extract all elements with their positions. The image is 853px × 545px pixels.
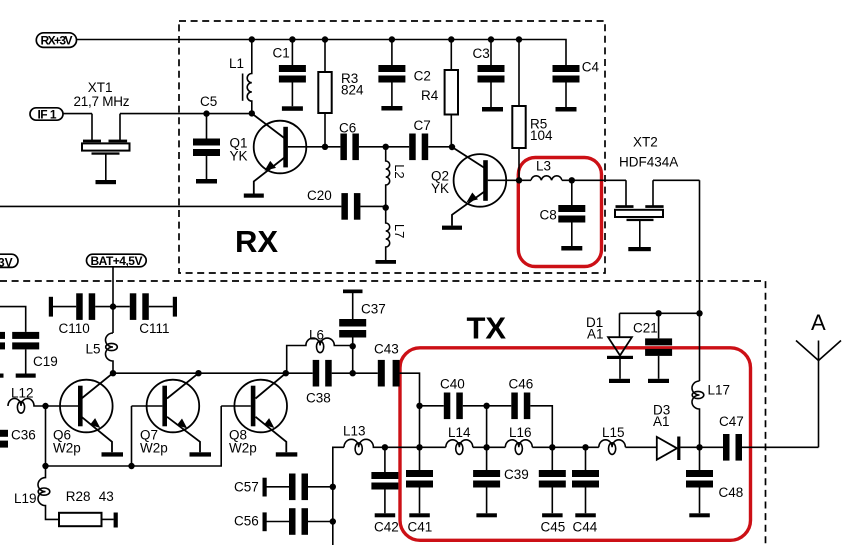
transistor Q8 circle <box>234 380 287 433</box>
wire D1/C21 top <box>620 312 700 314</box>
inductor L13 <box>344 439 385 447</box>
inductor L1 <box>247 40 252 114</box>
svg-text:W2p: W2p <box>229 441 257 456</box>
ground C3 <box>482 107 503 112</box>
capacitor C6 <box>340 134 347 161</box>
svg-text:C37: C37 <box>361 302 386 317</box>
svg-text:L2: L2 <box>392 164 407 178</box>
svg-text:YK: YK <box>230 149 248 164</box>
transistor Q8 emitter <box>256 417 287 453</box>
inductor L17 loop <box>692 391 704 398</box>
ground Q8 <box>276 452 298 456</box>
svg-text:L19: L19 <box>14 491 37 506</box>
svg-text:A1: A1 <box>653 414 670 429</box>
svg-text:RX+3V: RX+3V <box>41 34 73 48</box>
capacitor C5 leads <box>206 114 208 179</box>
diode D1 body <box>608 337 632 355</box>
capacitor C2 <box>378 65 405 72</box>
inductor L2 <box>386 147 390 208</box>
wire Q7 base column <box>131 406 133 466</box>
transistor Q6 emitter <box>82 417 113 453</box>
svg-text:L6: L6 <box>309 328 324 343</box>
wire C37 to C38 node <box>352 338 354 374</box>
svg-text:104: 104 <box>530 128 553 143</box>
inductor L14 loop <box>456 443 463 455</box>
resistor R28 body <box>59 513 102 526</box>
ground XT2 <box>628 247 651 251</box>
capacitor C41 bottom lead <box>419 488 421 514</box>
wire L14 to L16 <box>473 446 506 448</box>
capacitor C110 <box>76 293 83 320</box>
capacitor C3 <box>478 65 505 72</box>
capacitor C44 <box>572 470 599 477</box>
junction dots TX filter <box>350 343 356 349</box>
net label BAT+4,5V <box>87 254 147 267</box>
ground C4 <box>556 107 577 112</box>
ground C48 <box>689 513 710 517</box>
capacitor C19 <box>12 332 39 339</box>
wire Q7 base <box>132 405 163 407</box>
svg-text:L13: L13 <box>343 424 366 439</box>
svg-text:C36: C36 <box>11 428 36 443</box>
wire collector rail Q6-Q8 <box>113 372 313 374</box>
inductor L7 <box>386 208 390 260</box>
inductor L19 loop <box>38 488 50 495</box>
ground C21 <box>648 379 669 383</box>
capacitor C21 leads <box>658 313 660 379</box>
wire C46 right drop <box>530 406 552 448</box>
svg-text:C44: C44 <box>573 520 598 535</box>
wire C6 to C7 <box>359 146 409 148</box>
wire C40 to C46 <box>463 405 512 407</box>
resistor R3 leads <box>324 40 326 147</box>
svg-text:A: A <box>811 310 826 335</box>
wire TX column upper <box>699 180 701 381</box>
svg-text:C41: C41 <box>408 520 433 535</box>
svg-text:C21: C21 <box>633 321 658 336</box>
diode D3 cathode bar <box>677 437 680 461</box>
capacitor C3 leads <box>490 40 492 108</box>
svg-text:C3: C3 <box>473 46 490 61</box>
antenna A mast <box>818 361 820 448</box>
capacitor C8 <box>558 205 585 212</box>
svg-text:824: 824 <box>341 83 364 98</box>
svg-text:C2: C2 <box>414 69 431 84</box>
svg-text:C47: C47 <box>719 414 744 429</box>
inductor L14 <box>446 440 473 447</box>
transistor Q6 base bar <box>78 386 83 427</box>
svg-text:C111: C111 <box>139 321 169 336</box>
capacitor C37 <box>339 319 366 327</box>
ground Q2 <box>442 226 462 230</box>
svg-text:C40: C40 <box>440 377 465 392</box>
capacitor C111 <box>130 293 137 320</box>
transistor Q1 emitter <box>254 158 285 194</box>
capacitor C36 (clipped) <box>0 430 8 437</box>
inductor L15 loop <box>609 443 616 455</box>
crystal XT2 leads <box>626 180 653 205</box>
svg-text:C110: C110 <box>59 321 90 336</box>
RX block dashed border <box>179 21 605 273</box>
capacitor C4 leads <box>565 83 567 108</box>
terminal bar C56 left <box>263 512 267 531</box>
transistor Q1 base bar <box>283 127 288 168</box>
svg-text:L16: L16 <box>509 425 532 440</box>
ground C1 <box>282 106 303 111</box>
transistor Q2 emitter arrow <box>467 193 479 203</box>
capacitor C20 <box>341 193 348 220</box>
wire C40 row left <box>420 405 444 407</box>
svg-text:C57: C57 <box>234 480 259 495</box>
wire L13 to L14 <box>385 446 446 448</box>
svg-text:IF 1: IF 1 <box>38 107 57 121</box>
wire IF2 feed to C20 <box>0 205 341 207</box>
svg-text:C20: C20 <box>307 188 332 203</box>
resistor R4 leads <box>450 40 452 148</box>
crystal XT2 stem <box>639 221 641 248</box>
ground C41 <box>409 513 430 517</box>
ground C42 <box>375 513 396 517</box>
transistor Q7 collector <box>167 373 199 398</box>
capacitor C37 stem <box>352 293 354 319</box>
capacitor C56 <box>289 508 296 535</box>
wire C38 to C43 <box>332 372 378 374</box>
resistor R5 body <box>512 106 525 148</box>
capacitor C8 leads <box>571 180 573 246</box>
transistor Q7 circle <box>147 380 200 433</box>
wire C110 left <box>53 306 76 308</box>
wire filter column C39 <box>486 406 488 470</box>
svg-text:C43: C43 <box>374 342 399 357</box>
svg-text:C1: C1 <box>273 46 290 61</box>
capacitor C45 <box>539 470 566 477</box>
svg-text:L5: L5 <box>86 342 101 357</box>
inductor L16 loop <box>515 443 522 455</box>
diode D1 anode lead <box>619 313 621 337</box>
ground Q7 <box>190 452 212 456</box>
terminal bar C111 right <box>173 297 177 317</box>
svg-text:C5: C5 <box>200 94 217 109</box>
wire C43 to filter input <box>400 373 420 406</box>
crystal XT1 lower electrode <box>92 152 120 154</box>
resistor R4 body <box>445 70 458 115</box>
svg-text:43: 43 <box>99 489 114 504</box>
crystal XT2 body <box>615 210 663 217</box>
capacitor C42 bottom lead <box>384 490 386 514</box>
svg-text:A1: A1 <box>587 327 604 342</box>
wire Q8 base <box>221 405 251 407</box>
junction dots right <box>655 310 661 316</box>
diode D1 cathode lead <box>619 359 621 379</box>
net label IF1 <box>30 108 63 120</box>
crystal XT1 leads <box>92 114 120 140</box>
svg-text:XT1: XT1 <box>88 80 113 95</box>
svg-text:C46: C46 <box>509 377 534 392</box>
svg-text:C38: C38 <box>306 391 331 406</box>
ground C19 <box>16 374 36 378</box>
transistor Q7 emitter <box>167 417 200 453</box>
net label TX+3V (clipped) <box>0 254 18 267</box>
wire node to C111 <box>113 306 130 308</box>
svg-text:C45: C45 <box>541 520 566 535</box>
inductor L3 <box>531 176 562 180</box>
transistor Q8 emitter arrow <box>264 418 274 428</box>
svg-text:C56: C56 <box>234 514 259 529</box>
ground C8 <box>561 246 582 251</box>
svg-text:TX: TX <box>467 311 507 346</box>
svg-text:L15: L15 <box>602 425 625 440</box>
wire emitter bus <box>46 406 222 466</box>
TX block dashed border <box>0 281 766 545</box>
svg-text:C48: C48 <box>719 485 744 500</box>
inductor L6 loop <box>317 341 324 353</box>
wire C47 to antenna <box>742 446 819 448</box>
inductor L15 <box>599 440 626 448</box>
svg-text:+3V: +3V <box>0 255 13 269</box>
wire Q2 base to L3 <box>488 179 531 181</box>
wire C19 top <box>0 307 26 332</box>
diode D1 cathode bar <box>607 356 633 359</box>
wire XT1 to C5 to L1 node <box>120 113 252 115</box>
terminal bar C37 top <box>343 290 363 294</box>
svg-text:C4: C4 <box>582 60 600 75</box>
wire C57 left <box>267 486 290 488</box>
capacitor C44 leads <box>585 447 587 513</box>
capacitor C39 <box>473 470 500 477</box>
net label RX+3V <box>36 33 76 48</box>
transistor Q6 collector <box>82 373 113 398</box>
wire C57 to column <box>308 486 333 488</box>
ground XT1 <box>96 180 117 184</box>
wire D3 to antenna node <box>680 446 723 448</box>
capacitor C19 bottom lead <box>25 349 27 373</box>
crystal XT1 plates <box>83 140 101 143</box>
svg-text:21,7 MHz: 21,7 MHz <box>74 94 130 109</box>
capacitor C7 <box>409 134 416 161</box>
wire C110 to node <box>95 306 113 308</box>
wire C56 left <box>267 521 290 523</box>
terminal bar R28 right <box>114 513 118 528</box>
wire RX+3V rail to C4 <box>77 40 567 66</box>
svg-text:W2p: W2p <box>140 441 168 456</box>
wire BAT stem <box>112 267 114 333</box>
wire Q6 base node down <box>45 406 47 466</box>
inductor L5 loop <box>106 343 118 350</box>
svg-text:YK: YK <box>431 181 449 196</box>
capacitor C57 <box>289 474 296 501</box>
inductor L6 <box>287 338 353 373</box>
capacitor C48 leads <box>699 447 701 513</box>
terminal bar C57 left <box>263 478 267 497</box>
wire C7 to R4 node <box>428 146 452 148</box>
svg-text:C19: C19 <box>33 354 58 369</box>
red highlight box around L3/C8 <box>518 158 601 267</box>
capacitor C46 <box>511 393 518 420</box>
capacitor C5 <box>193 139 220 146</box>
capacitor C41 <box>406 470 433 477</box>
wire L13 column <box>333 447 344 545</box>
transistor Q7 emitter arrow <box>177 419 187 429</box>
wire C111 right <box>149 306 173 308</box>
transistor Q1 circle <box>254 121 307 174</box>
svg-text:C7: C7 <box>414 118 431 133</box>
capacitor C1 <box>279 65 306 72</box>
svg-text:BAT+4,5V: BAT+4,5V <box>91 254 143 268</box>
transistor Q1 collector <box>252 113 286 139</box>
capacitor at left edge (clipped) <box>0 332 5 339</box>
svg-text:RX: RX <box>235 224 278 259</box>
svg-text:L7: L7 <box>392 224 407 238</box>
transistor Q8 collector <box>256 373 286 398</box>
capacitor C45 leads <box>551 447 553 513</box>
svg-text:W2p: W2p <box>53 441 81 456</box>
transistor Q6 emitter arrow <box>90 418 100 428</box>
svg-text:L12: L12 <box>11 386 34 401</box>
inductor L5 <box>106 333 113 373</box>
transistor Q8 base bar <box>251 386 256 427</box>
svg-text:HDF434A: HDF434A <box>619 155 678 170</box>
svg-text:C6: C6 <box>339 120 356 135</box>
transistor Q2 emitter <box>452 192 485 226</box>
inductor L16 <box>505 440 532 447</box>
ground C45 <box>542 513 563 517</box>
svg-text:R28: R28 <box>66 489 91 504</box>
wire IF1 to XT1 <box>63 113 92 115</box>
terminal bar C110 left <box>49 297 53 317</box>
inductor L17 <box>692 381 700 448</box>
ground C44 <box>575 513 596 517</box>
inductor L12 <box>8 399 78 407</box>
wire C20 to L2/L7 node <box>360 205 385 207</box>
resistor R5 leads <box>518 40 520 181</box>
ground C5 <box>196 179 217 184</box>
capacitor C38 <box>313 360 320 387</box>
crystal XT1 stem <box>105 154 107 180</box>
wire L16 to L15 <box>532 446 599 448</box>
ground Q1 <box>244 194 264 198</box>
inductor L12 loop <box>17 402 24 414</box>
wire L15 to D3 <box>625 446 656 448</box>
wire C56 to column <box>308 521 333 523</box>
capacitor C47 <box>723 434 730 461</box>
svg-text:XT2: XT2 <box>633 135 658 150</box>
ground Q6 <box>102 452 124 456</box>
svg-text:C8: C8 <box>540 208 557 223</box>
ground L7 <box>376 260 397 264</box>
transistor Q2 base bar <box>483 160 488 201</box>
svg-text:L3: L3 <box>536 159 551 174</box>
svg-text:L17: L17 <box>708 383 731 398</box>
antenna A fork <box>796 341 841 361</box>
capacitor C42 <box>371 472 398 479</box>
crystal XT1 body <box>82 143 130 150</box>
svg-text:C39: C39 <box>504 467 529 482</box>
inductor L13 loop <box>355 443 362 455</box>
wire R28 right <box>102 518 114 520</box>
capacitor C2 leads <box>391 40 393 107</box>
capacitor C21 <box>645 338 672 345</box>
junction dots RX middle <box>203 110 209 116</box>
junction dots on RX+3V rail <box>249 36 255 42</box>
svg-text:R4: R4 <box>421 88 439 103</box>
svg-text:L14: L14 <box>448 425 471 440</box>
ground C39 <box>476 513 497 517</box>
svg-text:L1: L1 <box>229 56 244 71</box>
inductor L19 <box>38 466 59 519</box>
crystal XT2 plates <box>616 205 634 208</box>
transistor Q1 emitter arrow <box>265 161 277 171</box>
svg-text:C42: C42 <box>374 520 399 535</box>
diode D3 body <box>657 437 677 460</box>
wire L3 to C8 node to XT2 <box>562 179 626 181</box>
capacitor C42 top lead <box>384 447 386 472</box>
capacitor C40 <box>444 393 451 420</box>
junction dots TX left <box>110 303 116 309</box>
capacitor C48 <box>686 470 713 477</box>
wire filter column C41 <box>419 406 421 470</box>
resistor R3 body <box>318 72 331 113</box>
capacitor C43 <box>378 360 385 387</box>
ground C2 <box>381 106 402 111</box>
ground left edge cap (clipped) <box>0 374 4 378</box>
transistor Q2 collector <box>452 147 485 169</box>
crystal XT2 lower electrode <box>627 219 654 221</box>
capacitor C39 bottom lead <box>486 488 488 514</box>
transistor Q6 circle <box>60 380 113 433</box>
ground D1 <box>609 379 630 383</box>
capacitor C4 <box>553 65 580 72</box>
wire Q1 base to C6 <box>288 146 341 148</box>
red highlight box around TX output filter <box>400 348 751 541</box>
wire XT2 to TX column <box>653 179 700 181</box>
transistor Q7 base bar <box>162 386 167 427</box>
capacitor C1 leads <box>291 40 293 107</box>
transistor Q2 circle <box>454 154 507 207</box>
